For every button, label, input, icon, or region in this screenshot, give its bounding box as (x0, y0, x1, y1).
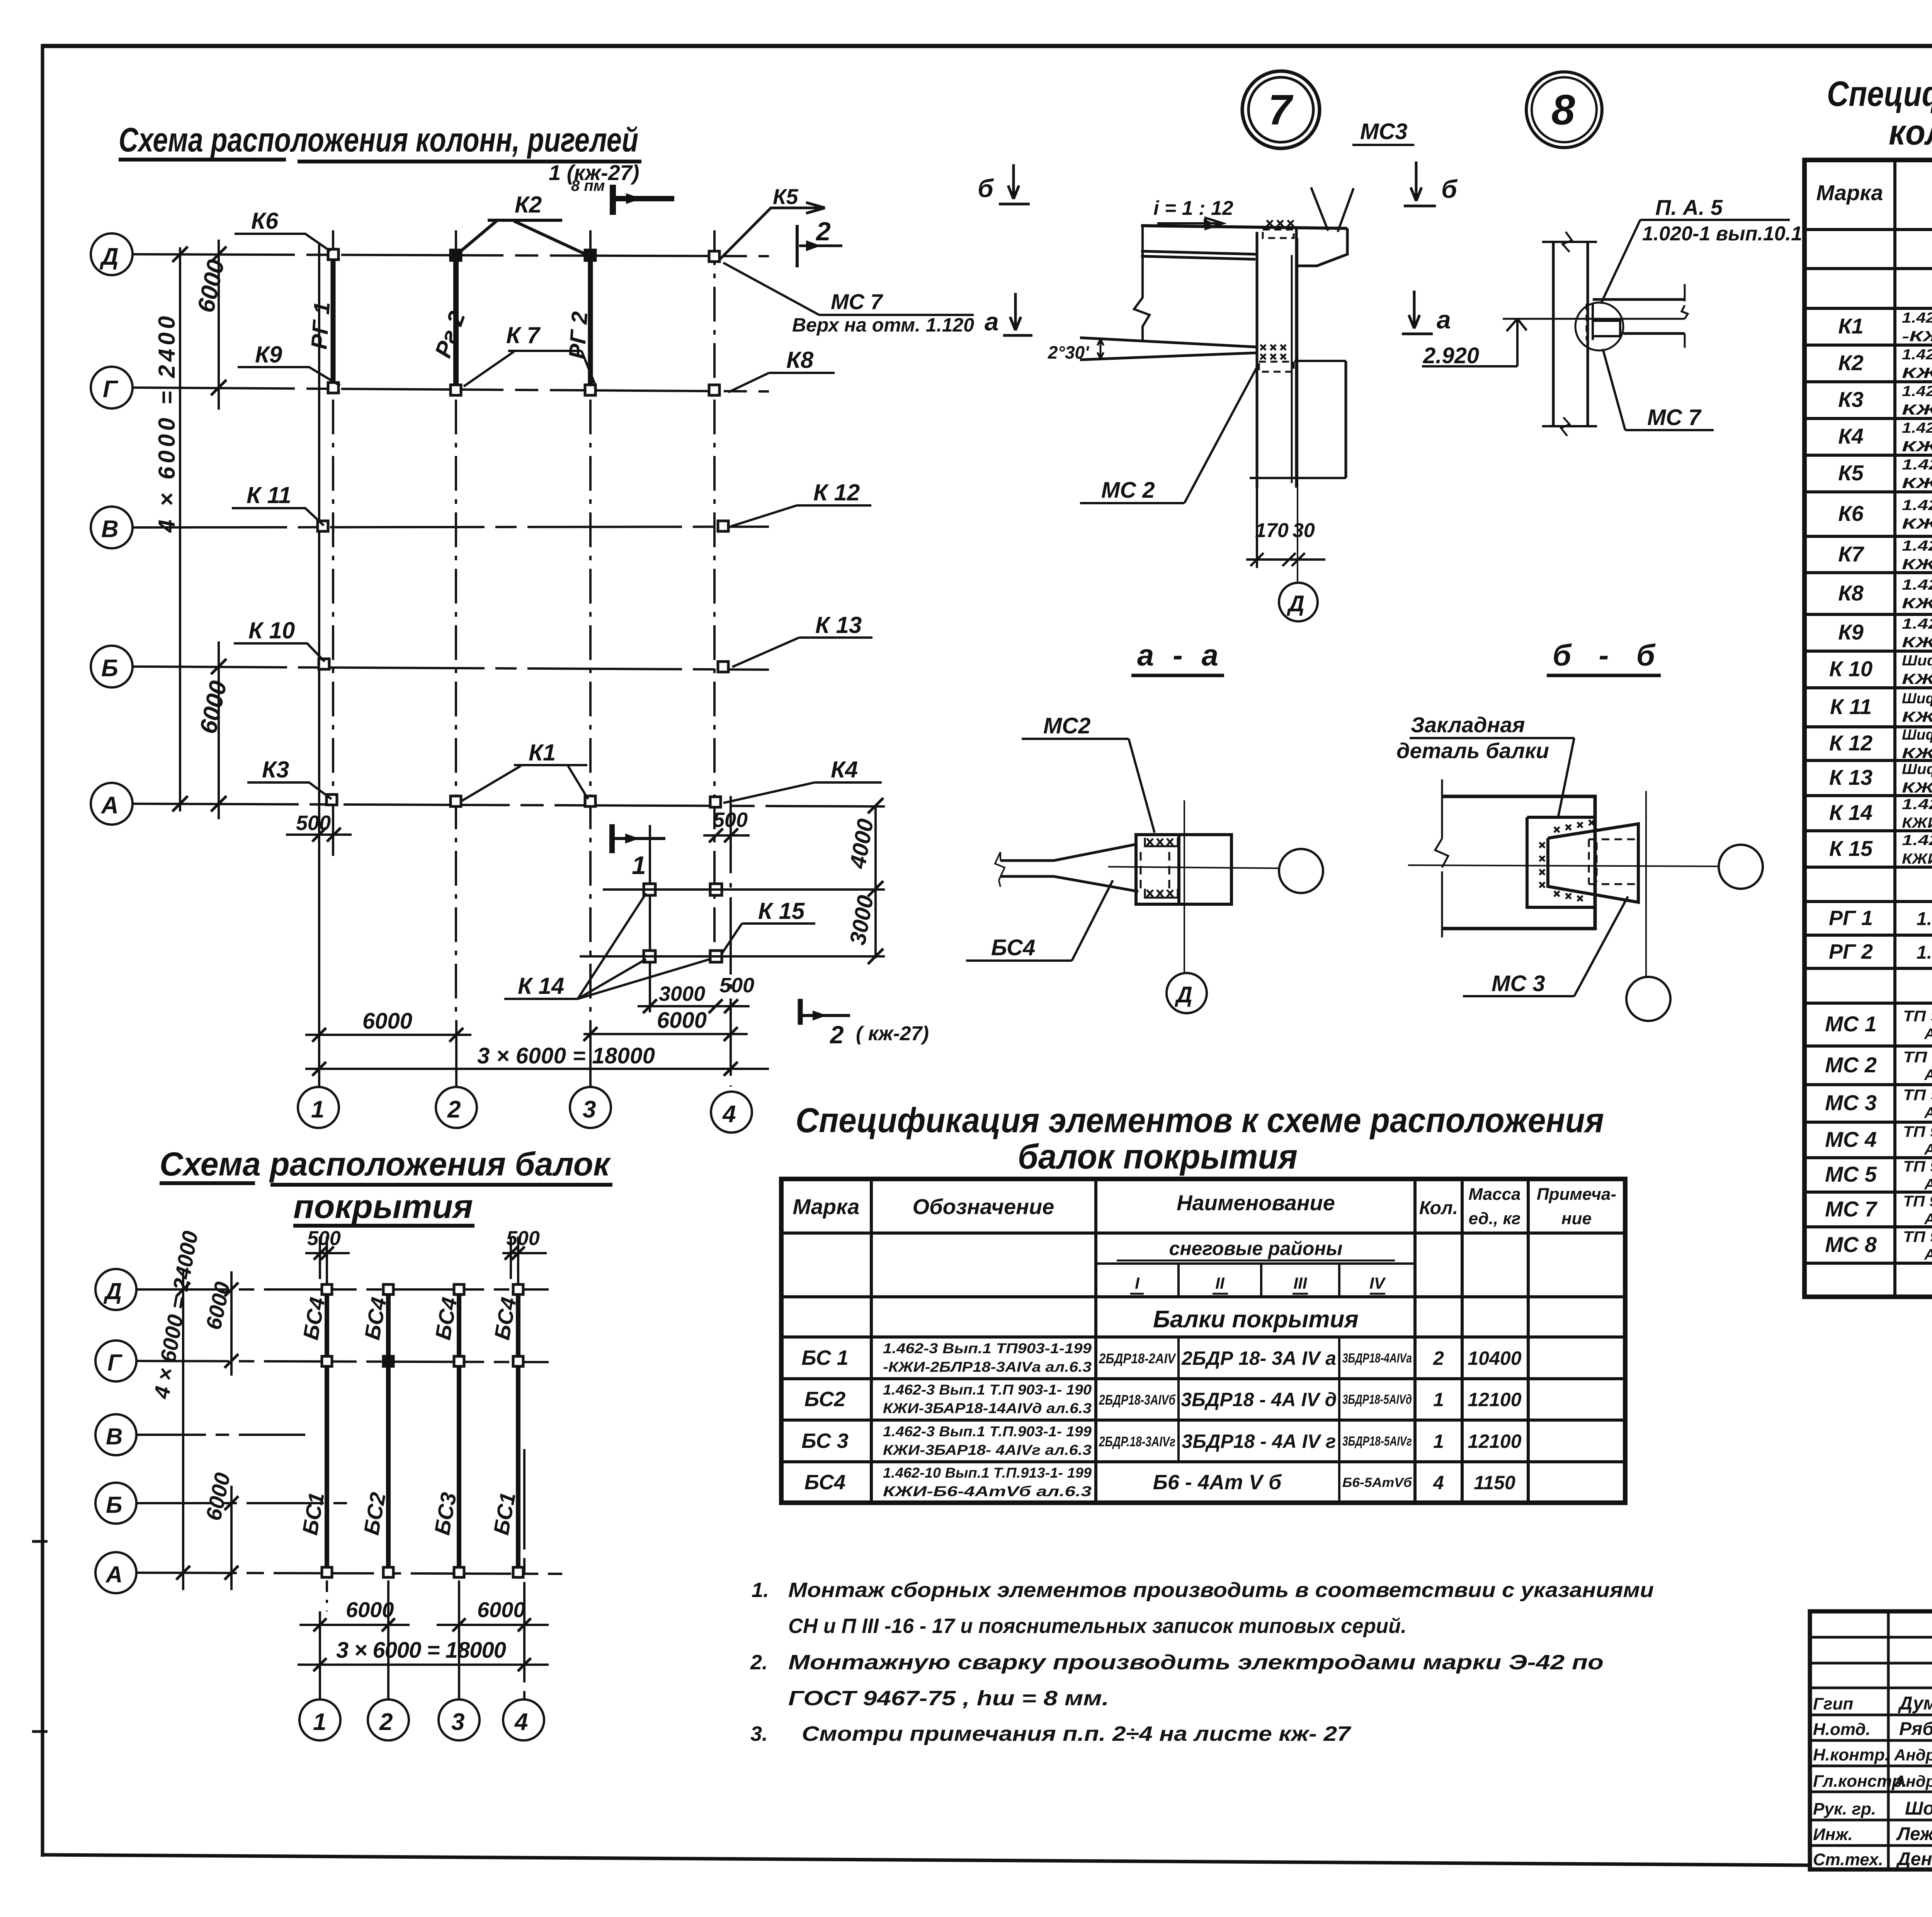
K14 squares 2x2 (644, 884, 655, 895)
table2 grid (1804, 160, 1932, 1297)
svg-text:170: 170 (1255, 519, 1289, 542)
svg-text:30: 30 (1293, 519, 1315, 542)
scheme title (119, 121, 638, 159)
svg-text:Андриевская: Андриевская (1894, 1772, 1932, 1790)
svg-text:ТП 903- 199 КЖИ - МС2: ТП 903- 199 КЖИ - МС2 (1903, 1049, 1932, 1066)
svg-text:Гл.констр.: Гл.констр. (1813, 1772, 1907, 1791)
svg-text:К5: К5 (1838, 461, 1864, 485)
svg-text:1.423-3 б.1 ТП 903-1- 199: 1.423-3 б.1 ТП 903-1- 199 (1902, 538, 1932, 554)
axis circle D2 (95, 1269, 136, 1310)
svg-text:1.423-3 б.1 ТП 903-1- 199: 1.423-3 б.1 ТП 903-1- 199 (1902, 616, 1932, 632)
column squares row B (319, 659, 329, 669)
left dim 6000s (201, 1271, 238, 1590)
svg-text:500: 500 (307, 1227, 341, 1250)
svg-text:1.423-3 вып.1 ТП 903-1-199: 1.423-3 вып.1 ТП 903-1-199 (1902, 310, 1932, 326)
squares row D2 (322, 1284, 332, 1294)
svg-text:Схема расположения колонн, риг: Схема расположения колонн, ригелей (119, 121, 638, 159)
lower column right edge (1345, 361, 1347, 478)
vertical dim 4000/3000 right (845, 798, 883, 964)
svg-text:б - б: б - б (1553, 638, 1656, 672)
left edge with break (1134, 226, 1150, 340)
axis line A (133, 804, 885, 806)
svg-text:К1: К1 (529, 740, 556, 765)
wall verticals with breaks (1552, 242, 1555, 426)
label MC3 of b-b (1463, 896, 1628, 996)
svg-text:К6: К6 (1838, 501, 1864, 526)
squares row G2 (322, 1356, 332, 1366)
girder RG2 (line2 D-G, bold smudged label) (453, 260, 459, 386)
svg-text:В: В (101, 516, 119, 543)
svg-text:1.423-3 в.1 ТП903-1- 199: 1.423-3 в.1 ТП903-1- 199 (1902, 796, 1932, 813)
svg-text:Шифр 460-75 В.1 ТП 903-1- 199: Шифр 460-75 В.1 ТП 903-1- 199 (1902, 691, 1932, 707)
table1 grid (781, 1179, 1625, 1503)
svg-text:2БДР.18-3АIVг: 2БДР.18-3АIVг (1099, 1434, 1175, 1449)
svg-text:Н.отд.: Н.отд. (1813, 1720, 1871, 1739)
svg-text:К6: К6 (251, 208, 279, 234)
svg-text:Верх на отм. 1.120: Верх на отм. 1.120 (792, 314, 974, 336)
svg-text:Ал. 6.3: Ал. 6.3 (1924, 1026, 1932, 1043)
bottom extension lines (326, 1580, 328, 1611)
dim 6000 bottom segment 3-4 (583, 1008, 748, 1041)
label MC2 of a-a (1022, 713, 1155, 833)
squares row A2 (322, 1567, 332, 1577)
svg-text:Ал. 6.3: Ал. 6.3 (1924, 1211, 1932, 1228)
svg-text:Кол.: Кол. (1419, 1198, 1458, 1218)
svg-text:РГ 2: РГ 2 (1829, 940, 1873, 963)
svg-text:Шифр 460-75 В1 ТП.903-1-199: Шифр 460-75 В1 ТП.903-1-199 (1902, 761, 1932, 777)
svg-text:1.462-3 Вып.1 Т.П 903-1- 190: 1.462-3 Вып.1 Т.П 903-1- 190 (883, 1382, 1092, 1398)
svg-text:1: 1 (311, 1096, 324, 1123)
svg-text:КЖИ-3БАР18- 4АIVг ал.6.3: КЖИ-3БАР18- 4АIVг ал.6.3 (883, 1442, 1092, 1458)
svg-text:Ал.6.3: Ал.6.3 (1924, 1104, 1932, 1121)
svg-text:БС2: БС2 (804, 1388, 846, 1411)
dashed bolts (1140, 852, 1142, 889)
svg-text:К 14: К 14 (518, 973, 564, 999)
signature table verticals (1888, 1611, 1932, 1869)
dim 170 30 (1246, 488, 1325, 568)
svg-text:балок покрытия: балок покрытия (1018, 1138, 1298, 1176)
axis 1 extension (318, 243, 320, 1087)
svg-text:КЖИ-К60-9-6 Ал.6.3: КЖИ-К60-9-6 Ал.6.3 (1902, 516, 1932, 532)
label K5 (719, 184, 825, 260)
svg-text:К 11: К 11 (1830, 694, 1872, 719)
svg-text:500: 500 (719, 974, 754, 997)
svg-text:П. А. 5: П. А. 5 (1655, 195, 1723, 219)
svg-text:Шифр 460-75 В.1 ТП 903-1- 199: Шифр 460-75 В.1 ТП 903-1- 199 (1902, 727, 1932, 743)
svg-text:1150: 1150 (1474, 1472, 1515, 1493)
svg-text:Инж.: Инж. (1813, 1825, 1853, 1844)
svg-text:3БДР18-5АIVг: 3БДР18-5АIVг (1342, 1434, 1412, 1449)
centerline vertical + empty bubble (1645, 791, 1647, 977)
svg-text:КЖИ-К72-1-1; К72-1-2 Ал.6.3: КЖИ-К72-1-1; К72-1-2 Ал.6.3 (1902, 815, 1932, 831)
svg-text:К 14: К 14 (1829, 800, 1872, 825)
axis circle A2 (95, 1552, 136, 1593)
svg-text:К9: К9 (255, 342, 282, 367)
centerline horizontal + node circle (1408, 865, 1718, 866)
svg-text:МС3: МС3 (1360, 119, 1407, 144)
svg-text:ед., кг: ед., кг (1469, 1209, 1521, 1228)
beam end trapezoid (1548, 824, 1638, 902)
svg-text:Марка: Марка (1816, 180, 1883, 205)
svg-text:Ал. 6.3: Ал. 6.3 (1924, 1176, 1932, 1193)
svg-text:Монтаж сборных элементов пр: Монтаж сборных элементов производить в с… (788, 1579, 1654, 1602)
svg-text:К8: К8 (1838, 581, 1864, 605)
svg-text:Думан: Думан (1898, 1693, 1932, 1714)
svg-text:12100: 12100 (1468, 1389, 1521, 1410)
svg-text:Шор: Шор (1905, 1798, 1932, 1819)
svg-text:i = 1 : 12: i = 1 : 12 (1153, 197, 1233, 219)
svg-text:-КЖИ-К60-9-7 Ал.6.3: -КЖИ-К60-9-7 Ал.6.3 (1902, 328, 1932, 345)
svg-text:МС 7: МС 7 (1825, 1197, 1878, 1221)
axis circle G2 (95, 1340, 136, 1381)
slab top line (1141, 226, 1347, 228)
label K8 (728, 347, 835, 392)
column block (1136, 835, 1231, 904)
svg-text:Спецификация элементов к схе: Спецификация элементов к схеме расположе… (796, 1101, 1604, 1140)
svg-text:покрытия: покрытия (293, 1188, 473, 1225)
svg-text:К 15: К 15 (758, 898, 805, 924)
svg-text:3БДР18-4АIVа: 3БДР18-4АIVа (1342, 1351, 1412, 1366)
svg-text:К 15: К 15 (1829, 836, 1873, 861)
svg-text:Обозначение: Обозначение (913, 1194, 1054, 1219)
centerline down to bubble D (1297, 238, 1298, 582)
beam top chord double line (1141, 251, 1257, 259)
svg-text:1.462-3 Вып.1 Т.П.903-1- 199: 1.462-3 Вып.1 Т.П.903-1- 199 (883, 1424, 1092, 1439)
table2 header texts (1816, 171, 1932, 306)
svg-text:( кж-27): ( кж-27) (856, 1022, 929, 1045)
svg-text:КЖИ-К60-25-5 Ал.6.3: КЖИ-К60-25-5 Ал.6.3 (1902, 634, 1932, 651)
axis line B (133, 667, 769, 670)
axis circle B2 (95, 1483, 136, 1524)
dim 500 at line4 row A (703, 808, 750, 866)
dashed plate top (MC1) (1263, 230, 1294, 238)
svg-text:2БДР18-2АIV: 2БДР18-2АIV (1099, 1351, 1176, 1366)
left dim line 1: 4x6000=24000 (179, 247, 181, 811)
table1 title (796, 1101, 1604, 1176)
svg-text:3БДР18 - 4А IV г: 3БДР18 - 4А IV г (1182, 1431, 1336, 1452)
elevation level line (1503, 318, 1685, 320)
svg-text:МС 7: МС 7 (831, 289, 884, 314)
svg-text:В: В (106, 1424, 122, 1449)
svg-text:8 пм: 8 пм (571, 177, 605, 194)
svg-text:1: 1 (1433, 1389, 1444, 1410)
svg-text:КЖИ-К60-25-4 Ал.6.3: КЖИ-К60-25-4 Ал.6.3 (1902, 556, 1932, 573)
beam BS4 lines (D-G) (325, 1289, 329, 1361)
svg-text:2: 2 (1433, 1347, 1444, 1369)
svg-text:2°30': 2°30' (1048, 342, 1090, 362)
svg-text:2: 2 (447, 1096, 461, 1123)
svg-text:КЖИ-К60-9-9 Ал.6.3: КЖИ-К60-9-9 Ал.6.3 (1902, 402, 1932, 418)
svg-text:К8: К8 (786, 347, 814, 373)
svg-text:МС 1: МС 1 (1825, 1012, 1877, 1036)
svg-text:К2: К2 (515, 192, 542, 218)
svg-text:Б: Б (106, 1492, 122, 1518)
svg-text:КЖИ-К60-9-4 Ал.6.3: КЖИ-К60-9-4 Ал.6.3 (1902, 439, 1932, 455)
svg-text:К2: К2 (1838, 350, 1864, 375)
svg-text:1.423-3 вып.1 ТП 903-1-199: 1.423-3 вып.1 ТП 903-1-199 (1902, 347, 1932, 363)
svg-text:К5: К5 (773, 184, 798, 209)
svg-text:1.462-3 Вып.1 ТП903-1-199: 1.462-3 Вып.1 ТП903-1-199 (883, 1340, 1092, 1356)
section marker a left (985, 293, 1032, 336)
svg-text:Денисова: Денисова (1896, 1849, 1932, 1869)
svg-text:а: а (985, 307, 999, 336)
dim 3000/500 below K14 (638, 974, 754, 1013)
svg-text:12100: 12100 (1468, 1431, 1521, 1452)
svg-text:1.: 1. (752, 1579, 769, 1602)
axis circle 1b (299, 1699, 340, 1740)
svg-text:1.020-1 вып.10.1: 1.020-1 вып.10.1 (1642, 223, 1802, 245)
dim 3x6000=18000 bottom (298, 1638, 549, 1671)
svg-text:К 12: К 12 (813, 480, 860, 505)
label MC7 / Verh na otm (723, 263, 974, 336)
dim 500 top-left beam (305, 1227, 350, 1284)
svg-text:Г: Г (107, 1350, 123, 1376)
svg-text:Примеча-: Примеча- (1537, 1185, 1616, 1204)
svg-text:10400: 10400 (1468, 1347, 1521, 1369)
svg-text:Г: Г (103, 376, 119, 403)
svg-text:1.020-1 вып. 3-1: 1.020-1 вып. 3-1 (1917, 909, 1932, 929)
svg-text:Закладная: Закладная (1411, 713, 1525, 737)
beam BS1/2/3/1 lines (G-A) (325, 1361, 329, 1573)
table2 title (1827, 74, 1932, 152)
section mark 2 top (797, 217, 842, 267)
axis bubble D of detail 7 (1279, 583, 1318, 621)
svg-text:2: 2 (815, 217, 831, 246)
label PA5 (1601, 195, 1802, 304)
node 8 bubble (1526, 72, 1602, 148)
embedded plate (1527, 817, 1595, 907)
column line 1 (offset 500) (332, 230, 334, 834)
sloped beam 2deg30 (1080, 338, 1257, 360)
section mark 1 top (549, 160, 674, 215)
section mark 1 bottom (612, 824, 665, 879)
svg-text:МС 2: МС 2 (1825, 1053, 1877, 1077)
svg-text:Масса: Масса (1468, 1185, 1520, 1204)
svg-text:Ал. 6.3: Ал. 6.3 (1924, 1246, 1932, 1263)
svg-text:КЖИ-К60-25-2 Ал.6.3: КЖИ-К60-25-2 Ал.6.3 (1902, 595, 1932, 612)
svg-text:Б6-5АтVб: Б6-5АтVб (1342, 1475, 1412, 1490)
dashed plate mid (MC2) (1259, 362, 1294, 372)
svg-text:К 11: К 11 (247, 482, 291, 508)
svg-text:КЖИ-Б6-4АтVб ал.6.3: КЖИ-Б6-4АтVб ал.6.3 (883, 1483, 1092, 1499)
dim 500 top-right beam (502, 1227, 547, 1284)
label K13 (732, 612, 872, 667)
svg-text:Андриевская: Андриевская (1894, 1746, 1932, 1764)
node circle (1575, 303, 1623, 350)
svg-text:КЖИ-К72-1-1; К72-1-2 Ал.6.3: КЖИ-К72-1-1; К72-1-2 Ал.6.3 (1902, 851, 1932, 867)
section marker a right (1402, 291, 1451, 334)
svg-text:К4: К4 (831, 757, 858, 782)
svg-text:IV: IV (1369, 1274, 1386, 1292)
section marker b left (978, 164, 1030, 204)
svg-text:К 10: К 10 (1829, 657, 1872, 681)
label MC2 (1080, 367, 1257, 503)
column line 4 (offset 500) (713, 230, 716, 954)
svg-text:К 10: К 10 (248, 617, 295, 643)
column line 3 (589, 230, 592, 1020)
svg-text:БС4: БС4 (804, 1471, 846, 1494)
svg-text:колонн, ригелей и балок по: колонн, ригелей и балок покрытия (1889, 113, 1932, 152)
label K4 (723, 757, 882, 803)
svg-text:Д: Д (1286, 591, 1304, 616)
svg-text:РГ 2: РГ 2 (564, 311, 592, 360)
svg-text:2БДР 18- 3А IV а: 2БДР 18- 3А IV а (1181, 1347, 1336, 1369)
axis circle 3 (570, 1087, 611, 1128)
axis circle 4b (503, 1699, 544, 1740)
centerline vertical + bubble D (1184, 800, 1185, 973)
svg-text:ГОСТ 9467-75 , hш = 8 мм.: ГОСТ 9467-75 , hш = 8 мм. (788, 1687, 1109, 1710)
svg-text:а - а: а - а (1137, 638, 1218, 672)
axis circle 2 (436, 1087, 477, 1128)
svg-text:А: А (105, 1561, 122, 1587)
svg-text:-КЖИ-2БЛР18-3АIVа ал.6.3: -КЖИ-2БЛР18-3АIVа ал.6.3 (883, 1359, 1092, 1375)
svg-text:К1: К1 (1838, 314, 1864, 338)
svg-text:Ал. 6.3: Ал. 6.3 (1924, 1141, 1932, 1158)
node 7 bubble (1242, 71, 1320, 148)
svg-text:МС 4: МС 4 (1825, 1127, 1877, 1152)
dim 6000 seg1 (299, 1597, 410, 1631)
column outline (1442, 796, 1595, 929)
svg-text:2.920: 2.920 (1423, 343, 1479, 368)
svg-text:6000: 6000 (657, 1008, 707, 1033)
weld marks top (1267, 220, 1294, 226)
svg-text:2: 2 (830, 1021, 844, 1049)
svg-text:К 12: К 12 (1829, 731, 1872, 755)
svg-text:6000: 6000 (362, 1009, 412, 1034)
label zakladnaya detal balki (1396, 713, 1574, 816)
svg-text:1.423-3 б.1 ТП 903-1- 199: 1.423-3 б.1 ТП 903-1- 199 (1902, 497, 1932, 514)
svg-text:Д: Д (103, 1278, 122, 1304)
axis circle B (91, 646, 133, 687)
axis circle V2 (95, 1414, 136, 1455)
K14 column line (649, 825, 651, 1012)
svg-text:К 7: К 7 (506, 322, 541, 348)
svg-text:1.423-3 в.1 ТП903-1- 190: 1.423-3 в.1 ТП903-1- 190 (1902, 832, 1932, 849)
svg-text:ТП 903-1- 199 КЖИ - МС 7: ТП 903-1- 199 КЖИ - МС 7 (1903, 1193, 1932, 1210)
axis line D (133, 254, 769, 256)
svg-text:КЖИ-3БАР18-14АIVд ал.6.3: КЖИ-3БАР18-14АIVд ал.6.3 (883, 1400, 1092, 1416)
svg-text:К9: К9 (1838, 620, 1864, 644)
svg-text:К7: К7 (1838, 542, 1864, 566)
svg-text:3: 3 (451, 1709, 464, 1735)
svg-text:МС2: МС2 (1043, 713, 1090, 738)
svg-text:БС 1: БС 1 (801, 1346, 849, 1369)
svg-text:СН и П III -16 - 17 и поясн: СН и П III -16 - 17 и пояснительных запи… (788, 1614, 1406, 1638)
label K14 (504, 893, 710, 999)
svg-text:ТП 903-1- 199 КЖИ - МС4: ТП 903-1- 199 КЖИ - МС4 (1903, 1123, 1932, 1140)
svg-text:БС 3: БС 3 (801, 1429, 849, 1453)
svg-text:4: 4 (514, 1709, 528, 1735)
svg-text:МС 2: МС 2 (1101, 478, 1155, 503)
svg-text:1.423-3 б.1 ТП 903-1-199: 1.423-3 б.1 ТП 903-1-199 (1902, 457, 1932, 473)
svg-text:Д: Д (1174, 982, 1192, 1007)
label K6 (235, 208, 330, 251)
axis circle D (91, 233, 133, 275)
svg-text:Спецификация элементов к схе: Спецификация элементов к схемам располож… (1827, 74, 1932, 114)
svg-text:6000: 6000 (346, 1597, 394, 1622)
dim 500 bottom of line1 (286, 811, 352, 856)
svg-text:1: 1 (632, 851, 646, 879)
svg-text:1.462-10 Вып.1 Т.П.913-1- 199: 1.462-10 Вып.1 Т.П.913-1- 199 (883, 1465, 1092, 1481)
svg-text:КЖИ-КФ 13-1-4 Ал.6.3: КЖИ-КФ 13-1-4 Ал.6.3 (1902, 780, 1932, 796)
svg-text:Балки покрытия: Балки покрытия (1153, 1306, 1359, 1333)
svg-text:3 × 6000 = 18000: 3 × 6000 = 18000 (477, 1043, 655, 1068)
dim 3x6000=18000 (305, 1043, 769, 1076)
scheme2 title (160, 1146, 611, 1225)
svg-text:1: 1 (313, 1709, 326, 1735)
svg-text:МС 7: МС 7 (1647, 405, 1702, 430)
weld marks mid (1260, 345, 1286, 359)
svg-text:К 13: К 13 (815, 612, 862, 638)
left dim 4x6000=24000 (149, 1229, 202, 1590)
role labels (1813, 1694, 1907, 1869)
svg-text:Б6 - 4Ат V б: Б6 - 4Ат V б (1153, 1471, 1282, 1494)
svg-text:а: а (1437, 305, 1451, 334)
weld x marks (1539, 820, 1594, 901)
svg-text:Д: Д (99, 243, 119, 270)
column squares row D (328, 249, 338, 260)
table1 header texts (793, 1185, 1617, 1333)
dim 6000 bottom segment 1-2 (305, 1009, 471, 1042)
svg-text:3: 3 (583, 1096, 596, 1123)
svg-text:Монтажную сварку производить: Монтажную сварку производить электродами… (788, 1651, 1604, 1674)
svg-text:деталь балки: деталь балки (1396, 738, 1549, 763)
centerline horizontal + node circle (1108, 867, 1279, 868)
svg-text:1: 1 (1433, 1431, 1444, 1452)
column verticals (1256, 232, 1259, 488)
svg-text:МС 3: МС 3 (1825, 1090, 1877, 1115)
svg-text:А: А (100, 792, 119, 819)
label K12 (731, 480, 871, 526)
svg-text:К3: К3 (262, 757, 289, 782)
axis circle A (91, 783, 133, 825)
axis line G (133, 388, 769, 391)
svg-text:ние: ние (1561, 1209, 1592, 1228)
svg-text:6000: 6000 (477, 1597, 526, 1622)
svg-text:снеговые районы: снеговые районы (1169, 1238, 1343, 1259)
svg-text:ТП 903-1-199 КЖИ - МС1: ТП 903-1-199 КЖИ - МС1 (1903, 1008, 1932, 1025)
svg-text:Лежакова: Лежакова (1896, 1824, 1932, 1844)
svg-text:КЖН-К60-9-8 Ал.6.3: КЖН-К60-9-8 Ал.6.3 (1902, 365, 1932, 381)
label K2 (460, 192, 587, 255)
svg-text:Шифр 460-75В.1 ТП903-1-199: Шифр 460-75В.1 ТП903-1-199 (1902, 653, 1932, 669)
svg-text:Наименование: Наименование (1177, 1191, 1335, 1215)
svg-text:К 13: К 13 (1829, 765, 1872, 789)
svg-text:1.423-3 вып.1 ТП 903-1-199: 1.423-3 вып.1 ТП 903-1-199 (1902, 383, 1932, 400)
svg-text:РГ 1: РГ 1 (1829, 907, 1873, 930)
column line 2 (455, 230, 457, 1020)
svg-text:2: 2 (379, 1709, 393, 1735)
svg-text:1.423-3 вып.1 ТП 903-1-199: 1.423-3 вып.1 ТП 903-1-199 (1902, 420, 1932, 436)
axis circle 2b (368, 1699, 409, 1740)
axis circle 3b (439, 1699, 480, 1740)
svg-text:КЖИ-К60-9-5 Ал.6.3: КЖИ-К60-9-5 Ал.6.3 (1902, 475, 1932, 492)
label K7 (464, 322, 595, 386)
section marker b right (1404, 162, 1458, 206)
K14 row lines (603, 888, 885, 891)
axis 4 extension (730, 796, 732, 1087)
dim 6000 seg3 (437, 1597, 549, 1631)
svg-text:4: 4 (722, 1101, 736, 1128)
svg-text:б: б (1441, 175, 1458, 203)
label BS4 (966, 880, 1113, 961)
svg-text:Рябуха: Рябуха (1899, 1719, 1932, 1739)
label K3 (247, 757, 332, 799)
column squares row G (328, 383, 338, 393)
svg-text:Марка: Марка (793, 1194, 860, 1219)
svg-text:Б: Б (101, 655, 118, 682)
column squares row V (318, 521, 328, 531)
